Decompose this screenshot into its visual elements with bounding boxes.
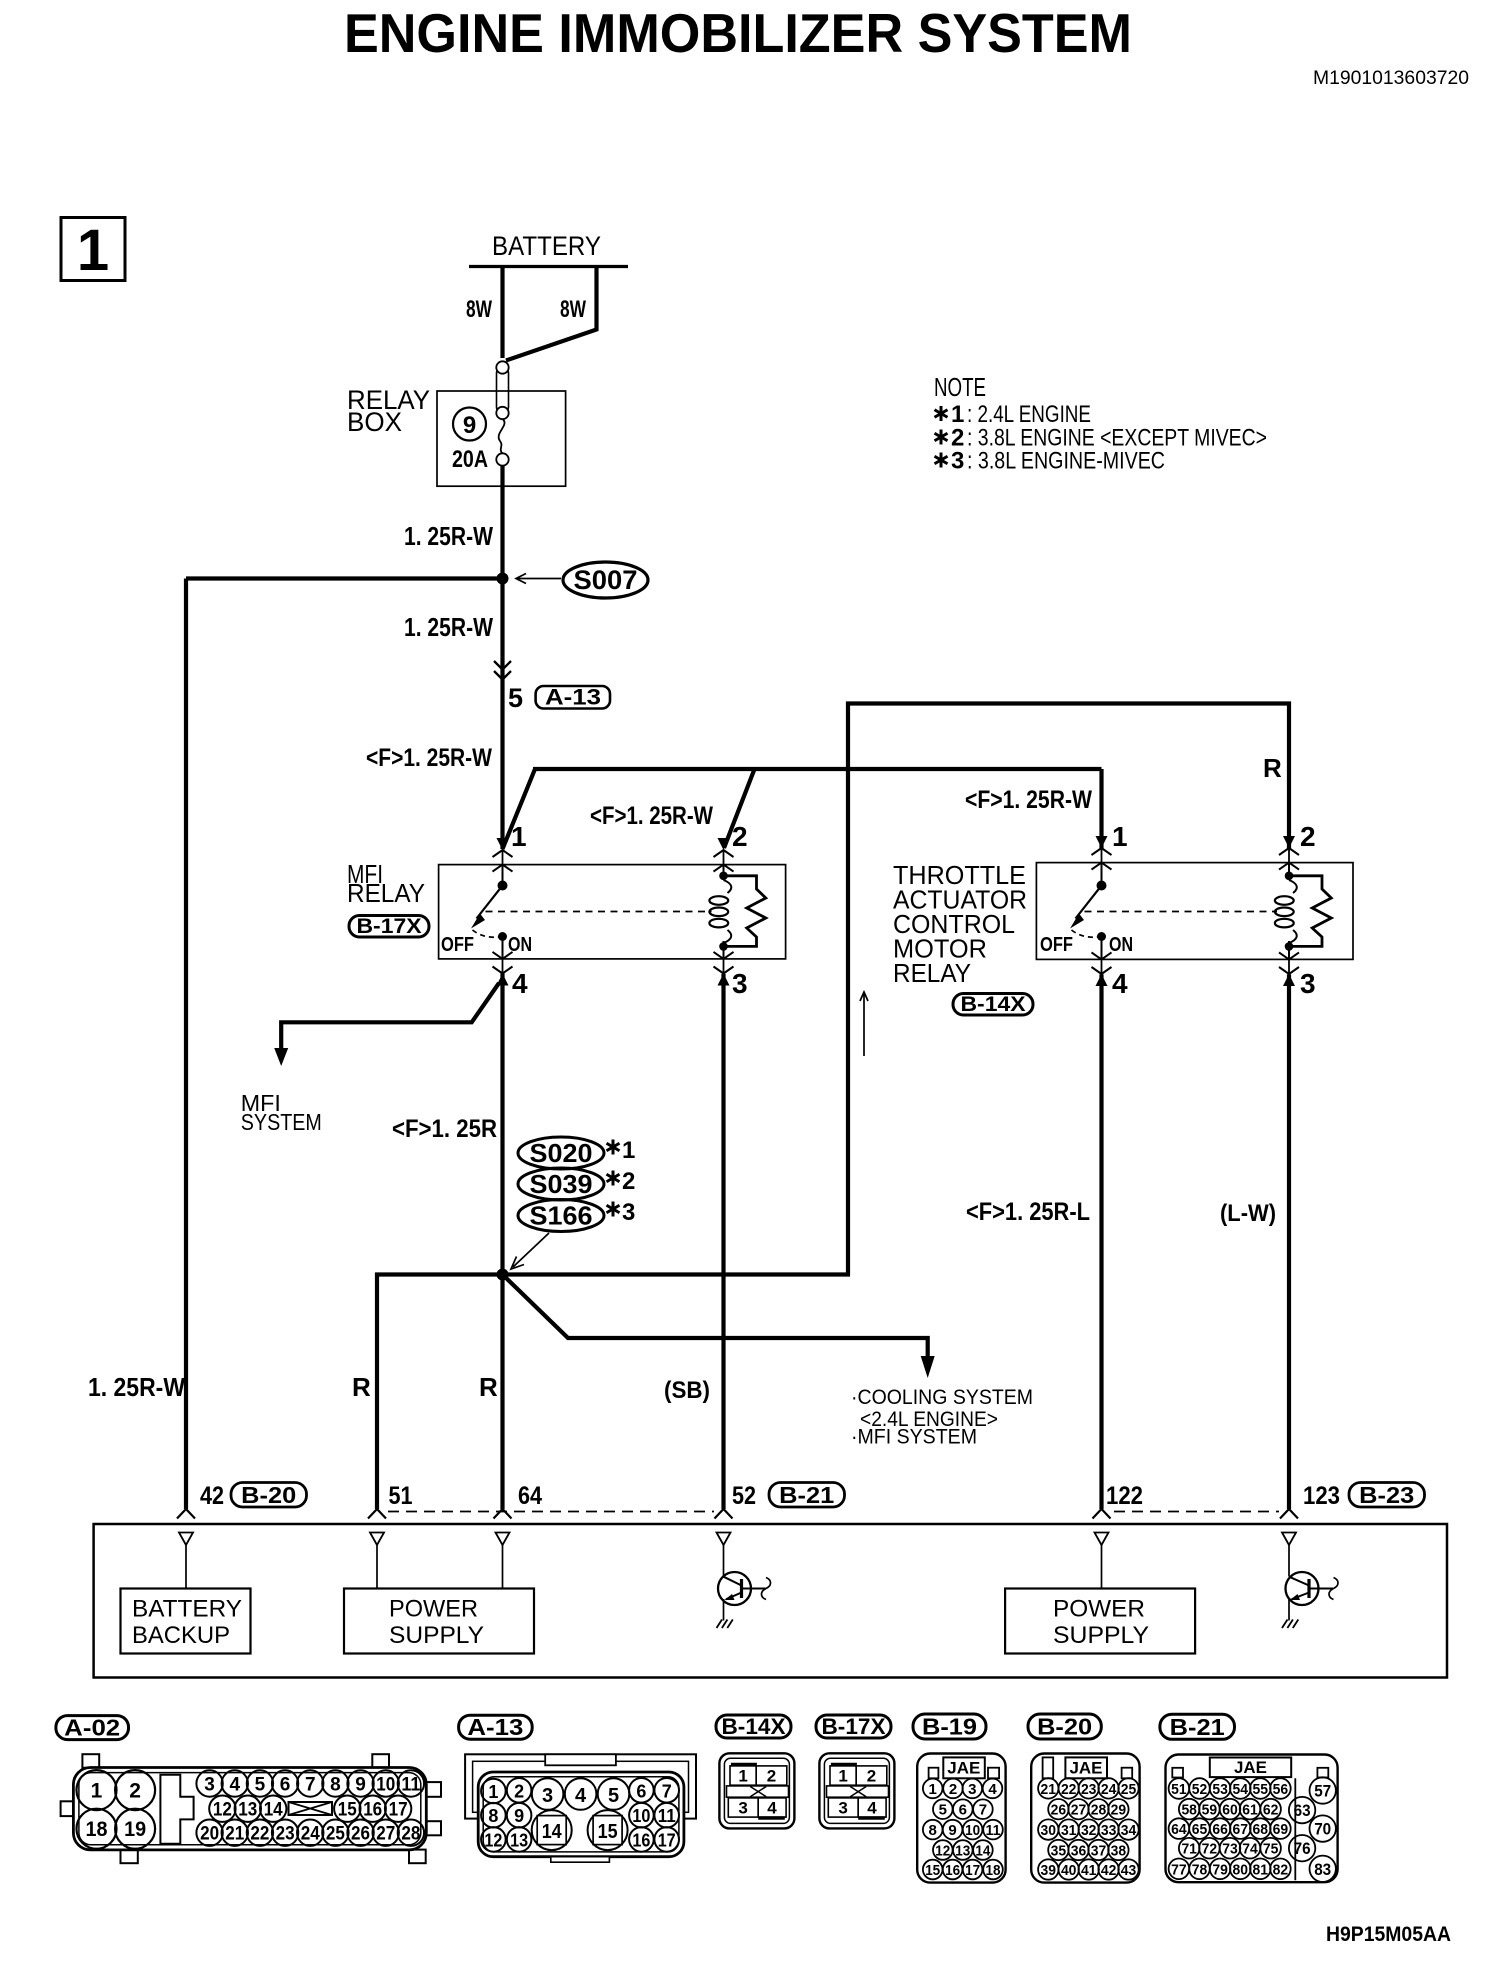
- svg-text:81: 81: [1253, 1861, 1269, 1878]
- svg-text:25: 25: [1121, 1781, 1137, 1798]
- wire MFI relay pin 3 down to pin 52: [721, 974, 725, 1509]
- svg-text:56: 56: [1273, 1781, 1289, 1798]
- wire end fork pin 64: [494, 1509, 512, 1519]
- ECU pin terminal 122: [1095, 1533, 1109, 1589]
- svg-text:R: R: [479, 1372, 498, 1402]
- doc code H9P15M05AA: [1326, 1923, 1451, 1946]
- svg-text:·MFI SYSTEM: ·MFI SYSTEM: [851, 1426, 977, 1449]
- ECU pin terminal 51: [370, 1533, 384, 1589]
- svg-text:20: 20: [200, 1824, 219, 1845]
- wire 8W right from battery: [506, 267, 597, 361]
- connector A-02 tag: [56, 1715, 129, 1741]
- svg-text:H9P15M05AA: H9P15M05AA: [1326, 1923, 1451, 1946]
- svg-text:80: 80: [1233, 1861, 1249, 1878]
- relay THROTTLE ACTUATOR CONTROL MOTOR RELAY box B-14X: [1036, 863, 1353, 960]
- svg-text:1: 1: [1112, 821, 1128, 852]
- wire end fork pin 42: [177, 1509, 195, 1519]
- svg-text:40: 40: [1061, 1862, 1077, 1879]
- A-02 pins 1 2 18 19: [77, 1770, 156, 1849]
- connector B-21 tag: [1160, 1714, 1235, 1740]
- pin number 1 MFI: [511, 821, 527, 852]
- svg-text:B-20: B-20: [1037, 1714, 1092, 1740]
- label RELAY BOX: [347, 385, 430, 437]
- svg-text:B-19: B-19: [922, 1714, 977, 1740]
- label 8W right: [560, 296, 586, 323]
- svg-text:28: 28: [401, 1824, 420, 1845]
- connector B-19 tag: [913, 1714, 986, 1740]
- MFI relay pin 3 terminal: [714, 952, 734, 986]
- svg-text:SUPPLY: SUPPLY: [1053, 1622, 1149, 1649]
- label THROTTLE ACTUATOR CONTROL MOTOR RELAY: [893, 860, 1027, 988]
- svg-text:BATTERY: BATTERY: [492, 231, 601, 261]
- svg-text:71: 71: [1181, 1841, 1197, 1858]
- connector B-14X tag: [953, 993, 1033, 1016]
- label MFI RELAY: [347, 859, 425, 908]
- label OFF throttle: [1040, 934, 1073, 956]
- arrow from S166 ovals to junction: [511, 1233, 549, 1269]
- svg-text:65: 65: [1192, 1821, 1208, 1838]
- svg-text:33: 33: [1101, 1822, 1117, 1839]
- svg-text:OFF: OFF: [1040, 934, 1073, 956]
- svg-text:NOTE: NOTE: [934, 372, 986, 402]
- battery bus bar: [469, 265, 628, 268]
- svg-text:79: 79: [1212, 1861, 1228, 1878]
- svg-text:14: 14: [264, 1800, 283, 1821]
- svg-text:28: 28: [1091, 1802, 1107, 1819]
- svg-text:5: 5: [608, 1785, 619, 1807]
- svg-text:51: 51: [1171, 1781, 1187, 1798]
- svg-text:11: 11: [658, 1806, 676, 1826]
- svg-text:27: 27: [1071, 1802, 1087, 1819]
- svg-text:3: 3: [622, 1199, 635, 1226]
- label <F>1.25R: [392, 1115, 497, 1143]
- wire throttle relay pin 4 down to pin 122: [1099, 974, 1103, 1509]
- MFI relay internals: switch OFF/ON and coil: [471, 865, 766, 959]
- svg-text:76: 76: [1294, 1839, 1311, 1858]
- svg-text:77: 77: [1171, 1861, 1187, 1878]
- pin number 1 throttle: [1112, 821, 1128, 852]
- svg-text:15: 15: [338, 1800, 357, 1821]
- svg-text:1: 1: [929, 1781, 937, 1798]
- svg-text:35: 35: [1051, 1843, 1067, 1860]
- svg-text:1: 1: [511, 821, 527, 852]
- svg-text:70: 70: [1314, 1820, 1331, 1839]
- note *3 : 3.8L ENGINE-MIVEC: [935, 448, 1165, 475]
- svg-text:24: 24: [301, 1824, 320, 1845]
- svg-text:29: 29: [1111, 1802, 1127, 1819]
- svg-text:9: 9: [514, 1806, 524, 1826]
- svg-text:14: 14: [542, 1821, 563, 1843]
- svg-text:(L-W): (L-W): [1220, 1200, 1276, 1227]
- ECU pin terminal 42: [179, 1533, 193, 1589]
- svg-text:8: 8: [330, 1775, 341, 1796]
- ECU box: [94, 1524, 1447, 1678]
- svg-text:17: 17: [658, 1830, 676, 1850]
- wire junction to left rail: [186, 576, 503, 580]
- splice S007 oval: [563, 562, 648, 598]
- connector dashed line 51-52: [388, 1511, 714, 1513]
- arrow from S007 to junction: [516, 574, 561, 584]
- connector B-20 housing: [1031, 1754, 1139, 1883]
- note *2 : 3.8L ENGINE <EXCEPT MIVEC>: [935, 425, 1267, 452]
- svg-text:(SB): (SB): [664, 1377, 710, 1404]
- pin number 4 MFI: [512, 968, 528, 999]
- wire diagonal to MFI relay pin 2: [724, 769, 755, 848]
- svg-text:POWER: POWER: [1053, 1596, 1145, 1623]
- svg-text:69: 69: [1273, 1821, 1289, 1838]
- svg-text:15: 15: [598, 1821, 618, 1843]
- wire end fork pin 52: [715, 1509, 733, 1519]
- svg-text:BOX: BOX: [347, 407, 402, 437]
- relay box RELAY BOX: [437, 391, 566, 486]
- svg-text:ON: ON: [1109, 934, 1133, 956]
- svg-text:10: 10: [376, 1775, 395, 1796]
- svg-text:7: 7: [662, 1781, 672, 1801]
- svg-text:17: 17: [389, 1800, 408, 1821]
- svg-text:19: 19: [124, 1818, 146, 1841]
- B-20 pins: [1038, 1778, 1139, 1880]
- svg-text:<F>1. 25R-W: <F>1. 25R-W: [965, 786, 1092, 814]
- svg-text:2: 2: [1300, 821, 1316, 852]
- throttle relay pin 4 terminal: [1092, 952, 1112, 986]
- label 1.25R-W upper: [404, 521, 493, 551]
- A-13 pins: [481, 1778, 679, 1852]
- svg-text:13: 13: [238, 1800, 257, 1821]
- arrowhead to MFI SYSTEM: [274, 1048, 288, 1066]
- wire left rail down to pin 42: [184, 579, 188, 1510]
- svg-text:59: 59: [1202, 1802, 1218, 1819]
- svg-text:67: 67: [1233, 1821, 1249, 1838]
- svg-text:4: 4: [988, 1781, 997, 1798]
- svg-text:1. 25R-W: 1. 25R-W: [404, 521, 493, 551]
- svg-text:20A: 20A: [452, 446, 488, 473]
- connector A-13 tag: [536, 685, 610, 710]
- svg-text:1: 1: [738, 1767, 747, 1786]
- svg-text:A-13: A-13: [545, 685, 601, 710]
- svg-text:3: 3: [738, 1799, 747, 1818]
- A-02 keyway: [289, 1802, 333, 1815]
- wire R from junction up and over to throttle relay pin 2: [503, 704, 1290, 1275]
- svg-text:75: 75: [1263, 1841, 1279, 1858]
- block BATTERY BACKUP: [121, 1589, 251, 1654]
- label MFI SYSTEM: [241, 1090, 322, 1135]
- connector A-02 housing: [61, 1754, 441, 1863]
- svg-text:10: 10: [965, 1822, 980, 1839]
- svg-text:22: 22: [250, 1824, 269, 1845]
- flow direction arrow: [860, 992, 868, 1056]
- svg-text:12: 12: [484, 1830, 502, 1850]
- transistor Q2 to ground at pin 123: [1282, 1545, 1338, 1628]
- svg-text:74: 74: [1242, 1841, 1258, 1858]
- svg-text:9: 9: [355, 1775, 366, 1796]
- svg-text:4: 4: [867, 1799, 877, 1818]
- svg-text:16: 16: [363, 1800, 382, 1821]
- svg-text:9: 9: [463, 412, 476, 439]
- svg-text:JAE: JAE: [1070, 1759, 1103, 1778]
- svg-text:: 3.8L ENGINE-MIVEC: : 3.8L ENGINE-MIVEC: [967, 448, 1165, 475]
- svg-text:2: 2: [732, 821, 748, 852]
- svg-text:ENGINE IMMOBILIZER SYSTEM: ENGINE IMMOBILIZER SYSTEM: [344, 2, 1132, 64]
- fuse element squiggle 20A: [496, 419, 508, 466]
- svg-text:B-20: B-20: [241, 1482, 296, 1508]
- splice S166 oval *3: [518, 1199, 635, 1232]
- svg-text:B-21: B-21: [1170, 1714, 1225, 1740]
- connector A-13 housing: [465, 1754, 696, 1862]
- svg-text:18: 18: [986, 1862, 1001, 1879]
- svg-text:11: 11: [401, 1775, 420, 1796]
- pin 5 label: [508, 683, 523, 713]
- svg-text:SUPPLY: SUPPLY: [389, 1622, 484, 1649]
- svg-text:15: 15: [925, 1862, 940, 1879]
- svg-text:53: 53: [1212, 1781, 1228, 1798]
- svg-text:6: 6: [959, 1802, 967, 1819]
- MFI relay pin 4 terminal: [493, 952, 513, 986]
- transistor Q1 to ground at pin 52: [717, 1545, 771, 1628]
- svg-text:2: 2: [767, 1767, 776, 1786]
- svg-text:61: 61: [1242, 1802, 1258, 1819]
- svg-text:32: 32: [1081, 1822, 1097, 1839]
- svg-text:26: 26: [1051, 1802, 1067, 1819]
- svg-text:1: 1: [488, 1782, 498, 1802]
- svg-text:7: 7: [305, 1775, 316, 1796]
- A-02 small pins: [196, 1770, 424, 1846]
- block POWER SUPPLY right: [1005, 1589, 1195, 1654]
- svg-text:·COOLING SYSTEM: ·COOLING SYSTEM: [851, 1386, 1033, 1409]
- svg-text:2: 2: [949, 1781, 957, 1798]
- splice junction S007 dot: [497, 573, 509, 585]
- wire branch to cooling system: [503, 1275, 928, 1359]
- svg-text:43: 43: [1121, 1862, 1137, 1879]
- node BATTERY label: [492, 231, 601, 261]
- connector B-19 housing: [917, 1754, 1005, 1883]
- block POWER SUPPLY left: [344, 1589, 534, 1654]
- svg-text:1: 1: [77, 218, 109, 283]
- svg-text:4: 4: [767, 1799, 777, 1818]
- wire bus down to throttle relay pin 1: [1099, 769, 1103, 849]
- svg-text:122: 122: [1106, 1482, 1143, 1510]
- connector B-17X tag bottom: [816, 1714, 891, 1739]
- splice S039 oval *2: [518, 1168, 635, 1200]
- svg-text:27: 27: [376, 1824, 395, 1845]
- svg-text:S039: S039: [530, 1169, 593, 1199]
- label COOLING SYSTEM / MFI SYSTEM: [851, 1386, 1033, 1449]
- svg-text:37: 37: [1091, 1843, 1107, 1860]
- svg-text:B-17X: B-17X: [357, 915, 422, 938]
- connector A-13 tag: [459, 1714, 533, 1740]
- pin number 42: [200, 1482, 224, 1510]
- svg-text:B-14X: B-14X: [961, 993, 1026, 1016]
- svg-text:36: 36: [1071, 1843, 1087, 1860]
- svg-text:42: 42: [200, 1482, 224, 1510]
- svg-text:63: 63: [1294, 1801, 1311, 1820]
- svg-text:<F>1. 25R-L: <F>1. 25R-L: [966, 1198, 1090, 1226]
- svg-text:B-21: B-21: [779, 1482, 834, 1508]
- svg-text:64: 64: [1171, 1821, 1187, 1838]
- svg-text:1. 25R-W: 1. 25R-W: [88, 1372, 185, 1402]
- svg-text:B-17X: B-17X: [822, 1714, 886, 1739]
- throttle relay pin 2 terminal: [1279, 836, 1299, 870]
- wire MFI relay pin 4 down to pin 64: [500, 974, 504, 1510]
- distribution bus wire y769: [533, 767, 1102, 771]
- label <F>1.25R-W left: [366, 744, 492, 772]
- svg-text:JAE: JAE: [1234, 1758, 1267, 1777]
- svg-text:18: 18: [86, 1818, 108, 1841]
- svg-text:68: 68: [1253, 1821, 1269, 1838]
- svg-text:1: 1: [838, 1767, 847, 1786]
- svg-text:13: 13: [955, 1843, 970, 1860]
- svg-text:JAE: JAE: [947, 1759, 980, 1778]
- svg-text:8W: 8W: [466, 296, 492, 323]
- svg-text:23: 23: [276, 1824, 295, 1845]
- connector dashed line 122-123: [1114, 1511, 1279, 1513]
- label OFF MFI: [441, 934, 474, 956]
- svg-text:A-02: A-02: [64, 1715, 120, 1741]
- svg-text:6: 6: [280, 1775, 291, 1796]
- wire junction down to connector A-13 pin 5: [500, 579, 504, 850]
- svg-text:A-13: A-13: [467, 1714, 523, 1740]
- ECU pin terminal 52: [717, 1533, 731, 1546]
- svg-text:6: 6: [636, 1781, 646, 1801]
- svg-text:60: 60: [1222, 1802, 1238, 1819]
- svg-text:21: 21: [1041, 1781, 1057, 1798]
- svg-text:41: 41: [1081, 1862, 1097, 1879]
- svg-text:24: 24: [1101, 1781, 1117, 1798]
- svg-text:1: 1: [622, 1137, 635, 1164]
- svg-text:39: 39: [1041, 1862, 1057, 1879]
- wire end fork pin 123: [1280, 1509, 1298, 1519]
- pin number 51: [389, 1482, 413, 1510]
- connector B-14X housing: [719, 1753, 794, 1828]
- svg-text:73: 73: [1222, 1841, 1238, 1858]
- svg-text:1. 25R-W: 1. 25R-W: [404, 612, 493, 642]
- svg-text:1: 1: [91, 1780, 103, 1803]
- svg-text:2: 2: [867, 1767, 876, 1786]
- label L-W: [1220, 1200, 1276, 1227]
- fusible link holder: [496, 361, 508, 419]
- throttle relay pin 1 terminal: [1092, 836, 1112, 870]
- wire branch diagonal to distribution bus: [503, 769, 536, 849]
- svg-text:2: 2: [129, 1780, 141, 1803]
- wire throttle relay pin 3 down to pin 123: [1287, 974, 1291, 1509]
- pin number 123: [1303, 1482, 1340, 1510]
- B-19 pins: [923, 1779, 1003, 1880]
- svg-text:B-14X: B-14X: [722, 1714, 786, 1739]
- svg-text:8: 8: [488, 1806, 498, 1826]
- label R near throttle relay pin 2: [1263, 753, 1282, 783]
- svg-text:9: 9: [948, 1822, 956, 1839]
- connector B-20 tag: [231, 1482, 307, 1508]
- svg-text:M1901013603720: M1901013603720: [1313, 68, 1469, 89]
- svg-text:3: 3: [204, 1775, 215, 1796]
- svg-text:52: 52: [732, 1482, 756, 1510]
- svg-text:72: 72: [1202, 1841, 1218, 1858]
- NOTE heading: [934, 372, 986, 402]
- in-line connector chevrons: [494, 661, 511, 680]
- splice junction dot lower: [497, 1269, 509, 1281]
- pin number 64: [518, 1482, 542, 1510]
- svg-text:10: 10: [632, 1806, 650, 1826]
- svg-text:57: 57: [1314, 1782, 1331, 1801]
- svg-text:R: R: [352, 1372, 371, 1402]
- svg-text:14: 14: [975, 1843, 991, 1860]
- svg-text:<F>1. 25R-W: <F>1. 25R-W: [590, 802, 713, 830]
- svg-text:3: 3: [838, 1799, 847, 1818]
- label 1.25R-W left rail: [88, 1372, 185, 1402]
- label ON throttle: [1109, 934, 1133, 956]
- connector B-20 tag: [1028, 1714, 1101, 1740]
- ECU pin terminal 123: [1282, 1533, 1296, 1546]
- svg-text:S020: S020: [530, 1138, 593, 1168]
- svg-text:123: 123: [1303, 1482, 1340, 1510]
- svg-text:78: 78: [1192, 1861, 1208, 1878]
- svg-text:3: 3: [732, 968, 748, 999]
- svg-text:82: 82: [1273, 1861, 1289, 1878]
- label 8W left: [466, 296, 492, 323]
- svg-text:BATTERY: BATTERY: [132, 1596, 242, 1623]
- svg-text:21: 21: [225, 1824, 244, 1845]
- svg-text:52: 52: [1192, 1781, 1208, 1798]
- svg-text:83: 83: [1314, 1860, 1331, 1879]
- throttle relay pin 3 terminal: [1279, 952, 1299, 986]
- MFI relay pin 1 terminal: [493, 838, 513, 872]
- connector B-21 housing: [1166, 1755, 1338, 1883]
- wire end fork pin 51: [368, 1509, 386, 1519]
- label <F>1.25R-W middle: [590, 802, 713, 830]
- B-21 pins: [1169, 1777, 1336, 1882]
- svg-text:5: 5: [939, 1802, 947, 1819]
- svg-text:<F>1. 25R: <F>1. 25R: [392, 1115, 497, 1143]
- svg-text:SYSTEM: SYSTEM: [241, 1109, 322, 1135]
- svg-text:64: 64: [518, 1482, 542, 1510]
- MFI relay pin 2 terminal: [714, 838, 734, 872]
- svg-text:31: 31: [1061, 1822, 1077, 1839]
- svg-text:B-23: B-23: [1359, 1482, 1414, 1508]
- connector B-17X housing: [819, 1753, 894, 1828]
- svg-text:3: 3: [1300, 968, 1316, 999]
- svg-text:11: 11: [986, 1822, 1001, 1839]
- svg-text:2: 2: [622, 1168, 635, 1195]
- pin number 52: [732, 1482, 756, 1510]
- svg-text:3: 3: [951, 448, 964, 475]
- fuse 9 circle: [453, 408, 486, 441]
- splice S020 oval *1: [518, 1137, 635, 1169]
- svg-text:OFF: OFF: [441, 934, 474, 956]
- svg-text:4: 4: [229, 1775, 240, 1796]
- pin number 122: [1106, 1482, 1143, 1510]
- svg-text:16: 16: [945, 1862, 960, 1879]
- svg-text:22: 22: [1061, 1781, 1077, 1798]
- svg-text:30: 30: [1041, 1822, 1057, 1839]
- doc number M1901013603720: [1313, 68, 1469, 89]
- svg-text:51: 51: [389, 1482, 413, 1510]
- connector B-23 tag: [1349, 1482, 1425, 1508]
- svg-text:S166: S166: [530, 1201, 593, 1231]
- svg-text:16: 16: [632, 1830, 650, 1850]
- relay MFI RELAY box B-17X: [439, 865, 786, 959]
- svg-text:BACKUP: BACKUP: [132, 1622, 230, 1649]
- svg-text:58: 58: [1181, 1802, 1197, 1819]
- wire junction to pin 51: [377, 1275, 503, 1510]
- svg-text:66: 66: [1212, 1821, 1228, 1838]
- connector B-17X tag: [349, 915, 429, 938]
- svg-text:26: 26: [351, 1824, 370, 1845]
- note *1 : 2.4L ENGINE: [935, 401, 1091, 428]
- svg-text:5: 5: [255, 1775, 266, 1796]
- svg-text:3: 3: [542, 1785, 553, 1807]
- svg-text:RELAY: RELAY: [347, 878, 425, 908]
- pin number 4 throttle: [1112, 968, 1128, 999]
- svg-text:34: 34: [1121, 1822, 1137, 1839]
